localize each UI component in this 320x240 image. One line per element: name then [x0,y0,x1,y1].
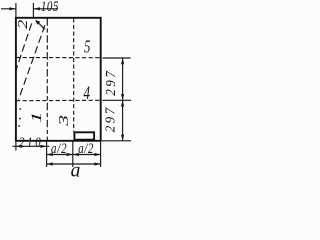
dim a/2 value left [51,141,67,157]
dim 105: extension line right [32,3,34,18]
dim a/2 line (two segments) with arrows [47,153,101,156]
fold line vertical V1 [46,18,48,140]
svg-text:2: 2 [16,20,30,29]
right dim line 297/297 with arrows [121,58,124,141]
label 4 [84,83,90,104]
bottom tick at fold V2 [72,141,74,167]
right dims: extension of fold H4 [103,99,132,101]
label 5 [84,37,91,57]
svg-text:210: 210 [19,134,43,149]
dim 210 value [19,134,43,149]
dim a value [71,160,81,181]
bottom tick at fold V1 [46,141,48,167]
svg-text:105: 105 [41,0,59,14]
fold line horizontal H4 [16,99,101,101]
bottom tick: right edge extended [100,141,102,167]
value 297 lower (rotated) [102,106,118,133]
bottom ticks: left edge extended [15,141,17,151]
svg-text:1: 1 [28,111,45,123]
fold line vertical V2 [73,18,75,131]
dim 210 line with arrows [13,145,50,148]
svg-text:a/2: a/2 [78,140,94,156]
dim a line with arrows [47,162,101,165]
dim 105: value text [41,0,59,14]
svg-text:4: 4 [84,83,90,104]
svg-text:3: 3 [56,115,72,127]
sheet outline (drawing sheet) [16,18,101,141]
dim a/2 value right [78,140,94,156]
dim 105: extension line left (sheet edge extended) [15,3,17,18]
binding margin dotted line [18,108,21,127]
svg-text:5: 5 [84,37,91,57]
right dims: extension of sheet bottom [102,140,131,142]
label 1 (rotated) [28,111,45,123]
diagonal fold A [16,23,32,70]
dim 105: dimension line + outside arrows [1,7,58,10]
value 297 upper (rotated) [103,69,119,96]
diagonal fold B [19,25,45,99]
label 3 (rotated) [56,115,72,127]
svg-text:a: a [71,160,81,181]
fold direction arrow at top [35,20,45,30]
right dims: extension of fold H5 [103,57,131,59]
fold line horizontal H5 [16,57,101,59]
svg-text:297: 297 [102,106,118,133]
label 2 (rotated) [16,20,30,29]
svg-text:a/2: a/2 [51,141,67,157]
svg-text:297: 297 [103,69,119,96]
title block box [74,132,94,139]
